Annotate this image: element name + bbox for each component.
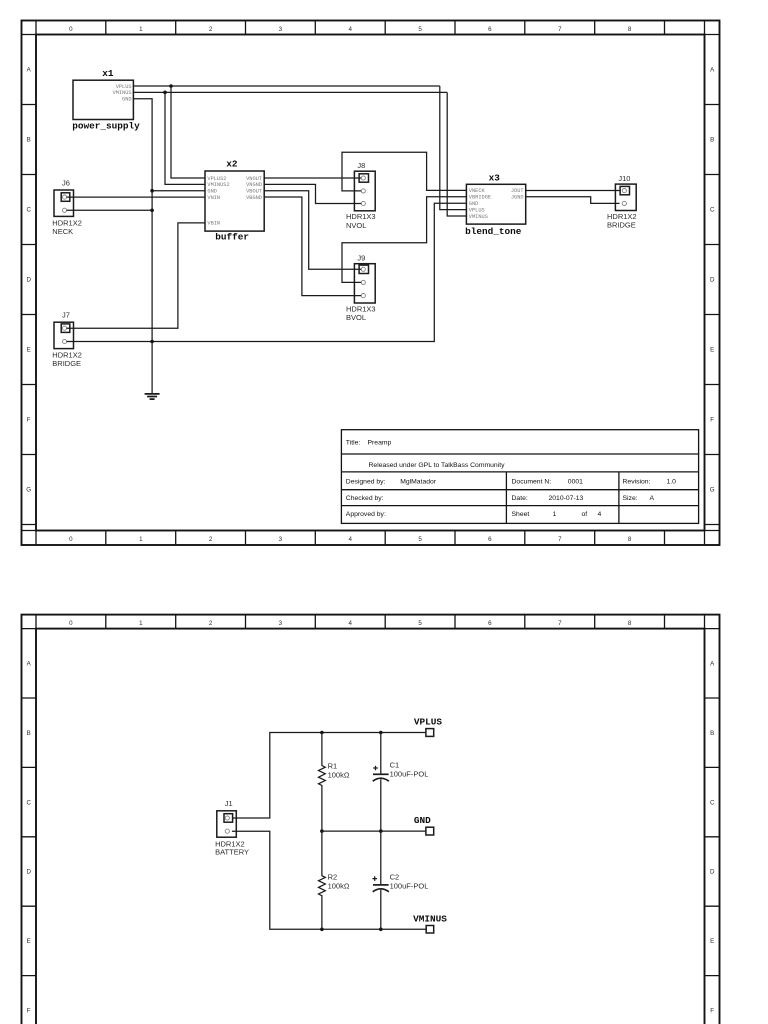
row divider ticks left strip <box>22 698 37 976</box>
svg-text:100uF-POL: 100uF-POL <box>390 770 429 779</box>
svg-text:E: E <box>27 938 31 945</box>
svg-text:4: 4 <box>348 620 352 627</box>
svg-text:3: 3 <box>279 620 283 627</box>
svg-text:Preamp: Preamp <box>368 440 392 447</box>
svg-text:8: 8 <box>628 26 632 33</box>
svg-text:Size:: Size: <box>623 495 638 502</box>
svg-text:100uF-POL: 100uF-POL <box>390 882 429 891</box>
svg-text:B: B <box>710 730 714 737</box>
connector J9 pin 1 square <box>359 265 368 273</box>
svg-text:VBOUT: VBOUT <box>246 189 262 195</box>
svg-text:Released under GPL to TalkBass: Released under GPL to TalkBass Community <box>369 462 506 469</box>
resistor R2 <box>319 831 326 929</box>
connector J6 pin 1 circle <box>62 195 66 199</box>
svg-text:BRIDGE: BRIDGE <box>52 359 81 368</box>
junction GND at J6 pin2 <box>150 209 154 213</box>
connector J10 pin 1 circle <box>622 189 626 193</box>
svg-text:2010-07-13: 2010-07-13 <box>549 495 584 502</box>
svg-text:J7: J7 <box>62 311 70 320</box>
column divider ticks top strip <box>22 615 720 629</box>
svg-text:VPLUS: VPLUS <box>414 717 443 728</box>
svg-text:Sheet: Sheet <box>512 511 530 518</box>
svg-text:power_supply: power_supply <box>72 120 140 131</box>
svg-text:C: C <box>26 799 31 806</box>
svg-text:C1: C1 <box>390 761 400 770</box>
sheet border outer rect <box>22 21 720 546</box>
capacitor C1 <box>373 733 389 832</box>
connector J7 pin 2 circle <box>62 339 66 343</box>
wire VPLUS drop to x2 VPLUS2 <box>171 86 205 178</box>
svg-text:8: 8 <box>628 536 632 543</box>
hierarchical block x1 power_supply <box>73 80 133 119</box>
svg-text:BATTERY: BATTERY <box>215 848 249 857</box>
svg-text:of: of <box>582 511 588 518</box>
svg-text:VNOUT: VNOUT <box>246 176 262 182</box>
svg-text:R2: R2 <box>328 873 338 882</box>
svg-text:JOUT: JOUT <box>511 188 524 194</box>
svg-text:5: 5 <box>418 26 422 33</box>
row divider ticks left strip <box>22 105 37 525</box>
wire J6 pin1 to x2 VNIN <box>67 196 205 198</box>
wire x2 VBOUT to J9 pin1 <box>264 191 361 270</box>
svg-text:x3: x3 <box>489 173 501 184</box>
svg-text:E: E <box>710 347 714 354</box>
connector J7 pin 1 square <box>61 324 70 333</box>
svg-text:GND: GND <box>122 97 132 103</box>
connector J6 body <box>54 190 74 216</box>
svg-text:D: D <box>26 277 31 284</box>
svg-text:VBRIDGE: VBRIDGE <box>469 195 491 201</box>
wire VPLUS drop to x3 VPLUS <box>440 86 467 210</box>
svg-text:C: C <box>26 207 31 214</box>
svg-text:8: 8 <box>628 620 632 627</box>
svg-text:E: E <box>710 938 714 945</box>
svg-text:J1: J1 <box>225 799 233 808</box>
svg-text:2: 2 <box>209 536 213 543</box>
connector J9 pin 1 circle <box>361 267 365 271</box>
svg-text:5: 5 <box>418 620 422 627</box>
connector J10 body <box>615 184 636 210</box>
sheet border outer rect <box>22 615 720 1024</box>
wire J7 pin2 / GND across to x3 GND <box>67 203 467 341</box>
junction VPLUS at R1 <box>320 731 324 735</box>
svg-text:VPLUS: VPLUS <box>116 84 132 90</box>
connector J8 pin 2 circle <box>361 189 365 193</box>
svg-text:G: G <box>710 487 715 494</box>
junction VMINUS at R2 <box>320 928 324 932</box>
svg-text:0: 0 <box>69 26 73 33</box>
wire x2 VNGND to J8 pin3 <box>264 184 361 203</box>
connector J1 pin 2 circle <box>225 829 229 833</box>
svg-text:VMINUS: VMINUS <box>113 90 132 96</box>
connector J1 body <box>217 811 237 837</box>
svg-text:BRIDGE: BRIDGE <box>607 221 636 230</box>
column divider ticks top strip <box>22 21 720 35</box>
svg-text:C2: C2 <box>390 873 400 882</box>
sheet border inner rect <box>36 35 705 531</box>
svg-text:100kΩ: 100kΩ <box>328 882 350 891</box>
svg-text:Designed by:: Designed by: <box>346 478 386 485</box>
capacitor C2 <box>372 831 389 929</box>
svg-text:A: A <box>650 495 655 502</box>
svg-text:D: D <box>710 869 715 876</box>
connector J1 pin 1 square <box>224 814 233 823</box>
title block <box>341 430 698 524</box>
svg-text:B: B <box>27 137 31 144</box>
connector J10 pin 1 square <box>620 186 629 194</box>
svg-text:J6: J6 <box>62 178 70 187</box>
connector J6 pin 2 circle <box>62 208 66 212</box>
svg-text:HDR1X3: HDR1X3 <box>346 304 376 313</box>
connector J8 body <box>354 171 375 211</box>
wire J7 pin1 to x2 VBIN <box>67 223 205 328</box>
svg-text:B: B <box>710 137 714 144</box>
junction VMINUS at x2 branch <box>163 91 167 95</box>
svg-text:4: 4 <box>348 536 352 543</box>
svg-text:D: D <box>26 869 31 876</box>
svg-text:C: C <box>710 799 715 806</box>
junction VPLUS at x2 branch <box>169 84 173 88</box>
svg-text:VMINUS2: VMINUS2 <box>207 182 229 188</box>
svg-text:GND: GND <box>414 815 431 826</box>
wire x3 JGND to J10 pin2 <box>526 197 620 204</box>
svg-text:E: E <box>27 347 31 354</box>
wire GND branch to x2 GND <box>152 190 205 192</box>
wire J8 pin2 to x3 VNECK <box>342 152 466 191</box>
wire VPLUS rail from x1 to right <box>133 85 439 87</box>
svg-text:VNECK: VNECK <box>469 188 486 194</box>
resistor R1 <box>319 733 326 832</box>
svg-text:JGND: JGND <box>511 195 524 201</box>
svg-text:0: 0 <box>69 536 73 543</box>
svg-text:1: 1 <box>139 536 143 543</box>
svg-text:C: C <box>710 207 715 214</box>
svg-text:F: F <box>710 1008 714 1015</box>
svg-text:6: 6 <box>488 26 492 33</box>
svg-text:100kΩ: 100kΩ <box>328 771 350 780</box>
svg-text:buffer: buffer <box>215 232 249 243</box>
svg-text:2: 2 <box>209 26 213 33</box>
wire VMINUS rail from x1 to right <box>133 91 447 93</box>
connector J1 pin 1 circle <box>225 816 229 820</box>
wire x3 JOUT to J10 pin1 <box>526 190 620 192</box>
svg-text:NECK: NECK <box>52 227 73 236</box>
sheet border inner rect <box>36 629 705 1024</box>
connector J7 body <box>54 322 74 348</box>
wire J9 pin2 to x3 VBRIDGE <box>342 197 466 283</box>
svg-text:HDR1X2: HDR1X2 <box>607 212 637 221</box>
svg-text:GND: GND <box>469 201 479 207</box>
wire x2 VNOUT to J8 pin1 <box>264 177 361 179</box>
svg-text:HDR1X3: HDR1X3 <box>346 212 376 221</box>
svg-text:1: 1 <box>553 511 557 518</box>
svg-text:Checked by:: Checked by: <box>346 495 384 502</box>
svg-text:0001: 0001 <box>568 478 583 485</box>
svg-text:7: 7 <box>558 620 562 627</box>
svg-text:2: 2 <box>209 620 213 627</box>
junction GND at R1/R2 <box>320 829 324 833</box>
ground symbol <box>145 394 160 399</box>
svg-text:x2: x2 <box>226 159 238 170</box>
net terminal VMINUS <box>426 926 434 934</box>
connector J9 body <box>354 264 375 303</box>
svg-text:1: 1 <box>139 620 143 627</box>
svg-text:J9: J9 <box>357 254 365 263</box>
wire J1 pin1 to VPLUS rail <box>232 733 426 819</box>
svg-text:VBGND: VBGND <box>246 195 262 201</box>
svg-text:Approved by:: Approved by: <box>346 511 386 518</box>
connector J8 pin 3 circle <box>361 201 365 205</box>
wire GND from x1 down to ground <box>133 99 152 394</box>
svg-text:1: 1 <box>139 26 143 33</box>
wire VMINUS drop to x3 VMINUS <box>447 92 466 216</box>
svg-text:VNIN: VNIN <box>207 195 220 201</box>
svg-text:NVOL: NVOL <box>346 221 366 230</box>
svg-text:3: 3 <box>279 26 283 33</box>
svg-text:VMINUS: VMINUS <box>469 214 488 220</box>
net terminal VPLUS <box>426 729 434 737</box>
svg-text:1.0: 1.0 <box>667 478 677 485</box>
svg-text:F: F <box>27 417 31 424</box>
row divider ticks right strip <box>705 698 720 976</box>
svg-text:4: 4 <box>348 26 352 33</box>
connector J9 pin 3 circle <box>361 294 365 298</box>
svg-text:7: 7 <box>558 536 562 543</box>
svg-text:x1: x1 <box>102 68 114 79</box>
svg-text:G: G <box>26 487 31 494</box>
junction VMINUS at C2 <box>379 928 383 932</box>
svg-text:Date:: Date: <box>512 495 528 502</box>
svg-text:0: 0 <box>69 620 73 627</box>
svg-text:F: F <box>710 417 714 424</box>
hierarchical block x3 blend_tone <box>466 184 525 224</box>
svg-text:7: 7 <box>558 26 562 33</box>
svg-text:D: D <box>710 277 715 284</box>
connector J10 pin 2 circle <box>622 201 626 205</box>
svg-text:BVOL: BVOL <box>346 313 366 322</box>
connector J8 pin 1 square <box>359 174 368 182</box>
svg-text:VMINUS: VMINUS <box>413 913 447 924</box>
svg-text:VBIN: VBIN <box>207 221 220 227</box>
connector J8 pin 1 circle <box>361 176 365 180</box>
svg-text:MglMatador: MglMatador <box>400 478 437 485</box>
svg-text:6: 6 <box>488 536 492 543</box>
wire VMINUS drop to x2 VMINUS2 <box>165 92 205 184</box>
svg-text:5: 5 <box>418 536 422 543</box>
svg-text:B: B <box>27 730 31 737</box>
svg-text:VPLUS: VPLUS <box>469 207 485 213</box>
svg-text:GND: GND <box>207 189 217 195</box>
wire J6 pin2 to GND <box>67 209 153 211</box>
junction GND at x2 branch <box>150 189 154 193</box>
svg-text:Document N:: Document N: <box>512 478 552 485</box>
wire x2 VBGND to J9 pin3 <box>264 197 361 296</box>
connector J9 pin 2 circle <box>361 280 365 284</box>
svg-text:3: 3 <box>279 536 283 543</box>
wire J1 pin2 to VMINUS rail <box>232 831 426 929</box>
connector J7 pin 1 circle <box>62 326 66 330</box>
svg-text:6: 6 <box>488 620 492 627</box>
svg-text:4: 4 <box>598 511 602 518</box>
svg-text:J8: J8 <box>357 161 365 170</box>
svg-text:Title:: Title: <box>346 440 361 447</box>
row divider ticks right strip <box>705 105 720 525</box>
svg-text:VPLUS2: VPLUS2 <box>207 176 226 182</box>
wire GND rail <box>322 830 426 832</box>
junction GND at C1/C2 <box>379 829 383 833</box>
hierarchical block x2 buffer <box>205 171 264 231</box>
svg-text:J10: J10 <box>618 174 630 183</box>
column divider ticks bottom strip <box>22 531 720 546</box>
svg-text:Revision:: Revision: <box>623 478 651 485</box>
svg-text:R1: R1 <box>328 761 338 770</box>
svg-text:blend_tone: blend_tone <box>465 226 522 237</box>
net terminal GND <box>426 827 434 835</box>
junction GND at J7 pin2 <box>150 340 154 344</box>
svg-text:F: F <box>27 1008 31 1015</box>
junction VPLUS at C1 <box>379 731 383 735</box>
svg-text:VNGND: VNGND <box>246 182 262 188</box>
connector J6 pin 1 square <box>61 193 70 202</box>
